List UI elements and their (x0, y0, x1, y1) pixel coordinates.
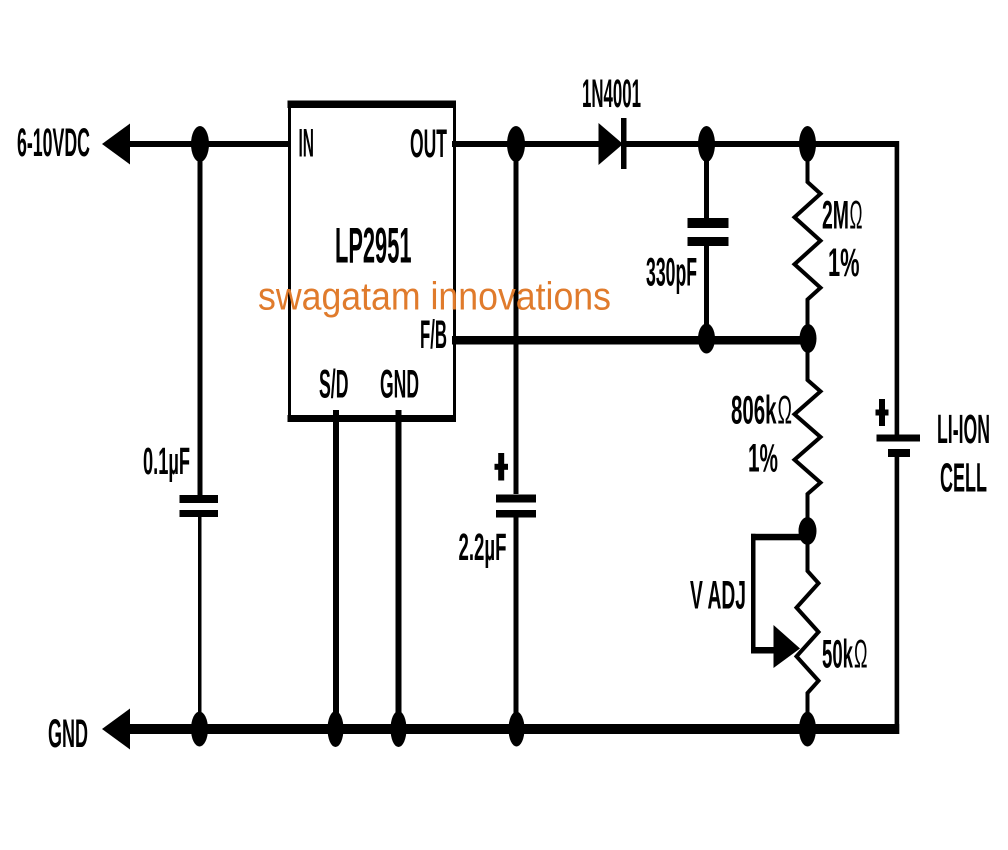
capacitor C3 330pF plates (688, 218, 729, 228)
wire: right vertical upper (to battery +) (895, 141, 900, 435)
wire: 330pF lower branch (704, 245, 709, 341)
svg-text:Ω: Ω (850, 194, 863, 238)
pot wiper arrow (774, 625, 801, 668)
node I: junction GND/SD (328, 711, 344, 747)
wire: 330pF upper branch (704, 144, 709, 219)
U1 thick bottom bar (288, 415, 457, 422)
svg-text:6-10VDC: 6-10VDC (17, 121, 90, 165)
node C: junction 330pF top (698, 126, 715, 162)
wire: OUT to diode anode (452, 141, 599, 147)
svg-text:swagatam innovations: swagatam innovations (258, 276, 611, 319)
wire: 2.2uF upper branch (514, 144, 519, 494)
capacitor C1 0.1uF plates (180, 495, 219, 503)
wire: GND pin to GND rail (396, 410, 402, 729)
wire: S/D pin to GND rail (333, 410, 339, 729)
node E: junction F/B 330pF (698, 324, 715, 354)
svg-text:IN: IN (299, 122, 315, 166)
node J: junction GND/GND pin (391, 711, 407, 747)
svg-text:1%: 1% (748, 437, 778, 481)
svg-text:806k: 806k (731, 389, 777, 433)
battery BT1 LI-ION long plate (877, 435, 921, 442)
wire F/B line (452, 336, 809, 345)
battery BT1 short plate (888, 449, 910, 457)
svg-text:50k: 50k (822, 633, 853, 677)
GND arrow (102, 709, 130, 750)
svg-text:Ω: Ω (778, 389, 793, 433)
input arrow (6-10VDC) (102, 124, 130, 165)
node F: junction F/B R1/R2 (800, 324, 817, 353)
capacitor C2 2.2uF plates (496, 495, 536, 503)
node B: junction OUT/2.2uF (507, 126, 525, 162)
wire: pot wiper loop (751, 534, 809, 541)
svg-text:GND: GND (380, 363, 419, 407)
wire: diode cathode to top-right corner (626, 141, 899, 147)
node K: junction GND/2.2uF (509, 712, 525, 747)
node D: junction 2M top (799, 126, 816, 162)
wire: 2.2uF lower branch (514, 516, 519, 729)
svg-text:2M: 2M (822, 194, 849, 238)
wire: right vertical lower (battery - to GND rail) (895, 455, 900, 734)
svg-text:LI-ION: LI-ION (937, 406, 990, 452)
plus sign of 2.2uF (498, 453, 504, 481)
svg-text:1N4001: 1N4001 (582, 72, 641, 116)
potentiometer R3 50k zigzag (797, 531, 819, 729)
svg-text:2.2µF: 2.2µF (459, 527, 507, 569)
svg-text:V ADJ: V ADJ (690, 574, 746, 618)
node A: junction input/0.1uF (191, 126, 209, 162)
node G: junction R2/pot wiper (799, 517, 817, 545)
wire: 0.1uF upper branch (198, 144, 203, 495)
svg-text:1%: 1% (828, 241, 860, 285)
svg-text:Ω: Ω (854, 633, 868, 677)
diode D1 1N4001 triangle (599, 123, 624, 165)
op-amp U1 LP2951 box (290, 106, 455, 419)
U1 thick top bar (288, 101, 457, 109)
svg-text:OUT: OUT (410, 122, 447, 166)
svg-text:330pF: 330pF (646, 251, 697, 295)
svg-text:LP2951: LP2951 (335, 218, 412, 274)
plus sign of battery (879, 399, 885, 426)
resistor R1 2M zigzag (795, 144, 821, 339)
wire: 0.1uF lower branch (198, 515, 202, 729)
wire: GND bottom rail (126, 724, 899, 734)
diode D1 cathode bar (621, 118, 627, 169)
node L: junction GND/50k (799, 712, 816, 747)
svg-text:S/D: S/D (319, 363, 349, 407)
svg-text:F/B: F/B (420, 313, 447, 357)
svg-text:GND: GND (48, 712, 88, 756)
svg-text:0.1µF: 0.1µF (143, 441, 190, 483)
node H: junction GND/0.1uF (191, 712, 208, 747)
resistor R2 806k zigzag (795, 339, 821, 532)
svg-text:CELL: CELL (940, 455, 987, 501)
wire: input line from arrow to IC IN pin (126, 141, 291, 147)
